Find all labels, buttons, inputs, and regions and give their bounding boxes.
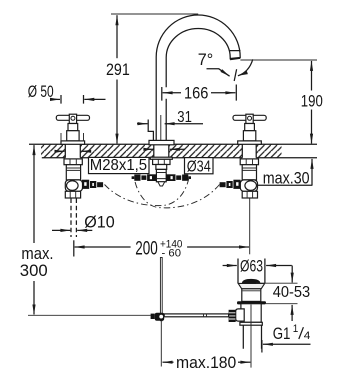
waste centerline	[250, 305, 252, 368]
svg-text:- 60: - 60	[162, 247, 182, 259]
svg-text:G1: G1	[273, 324, 291, 343]
svg-text:4: 4	[304, 330, 311, 342]
waste side port	[236, 309, 245, 321]
tee left fitting	[147, 174, 156, 181]
left side fitting	[82, 180, 89, 189]
neck	[156, 165, 167, 170]
left handle bar	[56, 115, 89, 120]
spout inner arc	[166, 29, 230, 58]
svg-text:1: 1	[293, 323, 299, 335]
washer plate	[150, 157, 172, 159]
svg-text:31: 31	[177, 109, 192, 126]
dim 166 arrows	[163, 92, 181, 94]
svg-text:300: 300	[20, 261, 48, 280]
spout outlet	[230, 51, 241, 60]
svg-text:200: 200	[135, 239, 158, 260]
svg-text:Ø10: Ø10	[84, 212, 115, 231]
svg-text:M28x1,5: M28x1,5	[90, 157, 147, 174]
waste neck	[242, 289, 261, 302]
spout outer arc	[156, 15, 240, 57]
right handle stem	[245, 124, 255, 131]
waste band	[240, 322, 262, 325]
right elbow pot	[240, 180, 257, 191]
waste body	[241, 304, 261, 323]
dim 291	[116, 15, 118, 58]
reference line under deck	[28, 314, 151, 316]
dim 200 +140 -60	[75, 246, 131, 248]
right valve body	[242, 165, 256, 180]
M28x1,5 label box	[89, 157, 150, 173]
dim diam 63	[238, 259, 265, 284]
svg-text:40-53: 40-53	[273, 284, 311, 301]
right side fitting	[233, 180, 240, 189]
svg-text:291: 291	[106, 60, 130, 79]
spout riser	[156, 57, 166, 140]
under-basin flange bar	[237, 301, 266, 304]
left handle stem	[68, 124, 78, 131]
tee right fitting	[166, 174, 175, 181]
hose right-to-center-left	[134, 179, 219, 208]
svg-text:166: 166	[184, 84, 208, 103]
center shank	[154, 145, 169, 158]
dim 166 ticks	[162, 85, 237, 101]
extension right valve	[249, 199, 251, 255]
dim 40-53	[256, 283, 298, 304]
right escutcheon	[238, 141, 262, 144]
left mounting nut	[64, 159, 82, 165]
riser inner line	[160, 115, 162, 140]
hose left-to-center-right	[105, 179, 189, 206]
left handle body	[67, 131, 79, 141]
waste flange skirt	[238, 283, 265, 288]
left bottom nut	[65, 191, 80, 198]
dim max180	[163, 361, 174, 363]
7deg swing arc	[238, 59, 253, 76]
left handle hub	[69, 114, 76, 123]
dim 31	[137, 123, 148, 125]
hole arrows center	[146, 148, 153, 150]
right mounting nut	[240, 159, 258, 165]
spout base flange	[149, 140, 174, 144]
knurled nut	[229, 310, 236, 322]
pull-rod knob	[148, 120, 153, 141]
7deg leader	[207, 69, 230, 76]
right handle body	[243, 131, 255, 141]
right handle hub	[246, 114, 253, 123]
dim max300	[33, 145, 35, 243]
rod extension line	[160, 321, 162, 367]
right bottom nut	[242, 191, 257, 198]
dim 190	[311, 61, 313, 91]
dim 291 extension top	[111, 13, 198, 15]
left tail tube dashed	[71, 199, 76, 238]
left shank in deck	[65, 144, 80, 158]
mounting nut center	[153, 159, 170, 164]
left escutcheon	[61, 141, 85, 144]
svg-text:Ø34: Ø34	[187, 158, 211, 175]
7deg axis tick	[234, 69, 236, 81]
diam 34 label box	[185, 158, 214, 174]
hole arrows left valve	[55, 150, 65, 152]
svg-text:Ø63: Ø63	[240, 257, 263, 276]
dim G1 1/4	[261, 340, 263, 353]
left valve body	[66, 165, 80, 180]
pull rod	[160, 258, 162, 321]
waste outlet pipe	[243, 325, 261, 349]
waste stopper cap	[242, 279, 261, 283]
tee body	[156, 169, 166, 181]
dim 190 extension	[240, 59, 317, 61]
cone below tee	[158, 182, 165, 186]
svg-text:max.180: max.180	[176, 353, 236, 372]
svg-text:190: 190	[301, 92, 323, 111]
svg-text:Ø 50: Ø 50	[28, 82, 54, 101]
left elbow pot	[65, 180, 82, 191]
rod clamp	[151, 314, 155, 319]
linkage rod	[164, 314, 228, 317]
svg-text:7°: 7°	[198, 50, 214, 69]
deck hatched section	[41, 144, 65, 158]
deck top line	[29, 143, 317, 145]
right handle bar	[233, 115, 266, 120]
right shank in deck	[242, 144, 256, 158]
deck bottom line	[42, 157, 317, 159]
